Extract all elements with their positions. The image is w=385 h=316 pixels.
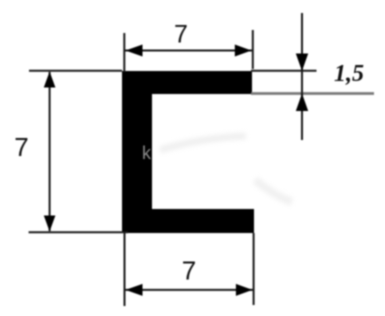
watermark smudge lower — [255, 180, 292, 202]
left dimension line — [49, 72, 51, 231]
watermark smudge upper — [160, 136, 246, 150]
bottom dimension extension line left — [124, 233, 126, 306]
top dimension line — [125, 50, 253, 52]
thickness dimension lower extension line — [251, 92, 374, 95]
U-channel profile body — [122, 71, 254, 233]
bottom dimension arrow left — [126, 284, 143, 296]
svg-text:7: 7 — [174, 21, 188, 49]
left dimension extension line top — [29, 70, 122, 72]
thickness dimension vertical line — [301, 13, 303, 140]
bottom dimension line — [125, 289, 254, 291]
left dimension arrow down — [44, 216, 56, 232]
svg-text:7: 7 — [182, 256, 196, 286]
top dimension extension line left — [123, 33, 125, 72]
top dimension arrow right — [235, 45, 252, 57]
svg-text:k: k — [142, 143, 152, 163]
bottom dimension arrow right — [236, 284, 253, 296]
thickness dimension arrow down — [296, 54, 308, 72]
svg-text:7: 7 — [14, 132, 28, 162]
thickness dimension arrow up — [296, 94, 308, 112]
left dimension extension line bottom — [29, 231, 128, 233]
bottom dimension extension line right — [253, 233, 255, 305]
top dimension extension line right — [252, 30, 254, 69]
svg-text:1,5: 1,5 — [334, 61, 364, 87]
thickness dimension upper extension line — [251, 70, 317, 72]
left dimension arrow up — [44, 72, 56, 88]
top dimension arrow left — [126, 45, 143, 57]
